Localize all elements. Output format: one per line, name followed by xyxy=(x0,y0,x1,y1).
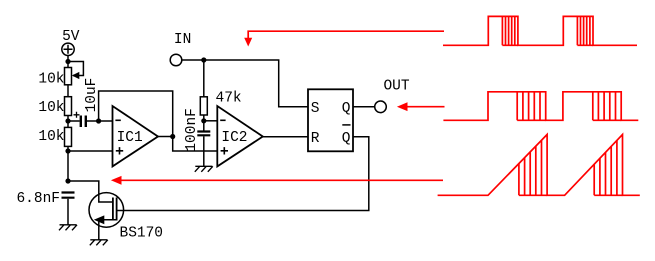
svg-text:100nF: 100nF xyxy=(184,108,200,152)
wire C3 to ground xyxy=(203,136,205,166)
wire IC2 output to R input xyxy=(263,136,308,138)
svg-text:BS170: BS170 xyxy=(120,225,164,241)
plus sign of C1 polarity xyxy=(74,112,80,118)
waveform 2 pulse train xyxy=(443,92,638,121)
wire IN node to R4 xyxy=(203,60,205,97)
IC1 minus sign xyxy=(115,119,120,121)
svg-text:6.8nF: 6.8nF xyxy=(16,191,60,207)
resistor R4 (47k) body xyxy=(200,97,207,115)
wire Q to OUT xyxy=(353,106,375,108)
svg-text:10k: 10k xyxy=(38,72,64,88)
IC2 plus sign xyxy=(221,147,228,154)
Q1 channel bar xyxy=(116,198,118,221)
potentiometer wiper arrowhead xyxy=(72,72,80,79)
capacitor C3 100nF plates xyxy=(197,132,210,136)
waveform 3 sawtooth xyxy=(438,135,640,196)
resistor R2 (10k) body xyxy=(65,97,72,116)
svg-text:IN: IN xyxy=(174,32,191,48)
Q1 body arrowhead xyxy=(94,215,105,224)
terminal IN xyxy=(170,54,182,66)
wire R4 to IC2 inverting input xyxy=(203,115,205,131)
potentiometer wiper loop wire xyxy=(68,62,83,76)
svg-text:R: R xyxy=(311,131,320,147)
junction inverting node IC1 xyxy=(96,118,101,123)
svg-text:IC2: IC2 xyxy=(221,130,247,146)
Q1 gate bar xyxy=(112,198,114,221)
svg-text:Q: Q xyxy=(342,131,351,147)
junction C2 top xyxy=(65,178,70,183)
wire IC1 output xyxy=(158,136,173,138)
terminal OUT xyxy=(375,101,387,113)
svg-text:10uF: 10uF xyxy=(84,78,100,113)
wire gate node xyxy=(68,181,112,202)
IC1 plus sign xyxy=(116,147,123,154)
svg-text:47k: 47k xyxy=(216,91,242,107)
wire IN to S input xyxy=(182,60,308,107)
red arrow to OUT terminal xyxy=(407,106,445,108)
wire node to IC2 minus xyxy=(204,120,218,122)
svg-text:5V: 5V xyxy=(62,29,80,45)
op-amp IC1 triangle xyxy=(113,106,159,166)
wire 5V to R1 xyxy=(67,56,69,68)
junction IC2 inverting node xyxy=(201,118,206,123)
wire Q1 drain to Q-bar xyxy=(124,137,369,211)
capacitor C1 10uF plates xyxy=(81,116,86,128)
5V supply symbol xyxy=(62,43,74,55)
Q1 source wire with body arrow xyxy=(99,220,117,240)
svg-text:IC1: IC1 xyxy=(117,130,143,146)
resistor R1 (10k pot) body xyxy=(65,68,72,85)
wire R1 to R2 xyxy=(67,85,69,97)
svg-text:Q: Q xyxy=(342,101,351,117)
wire C2 to ground xyxy=(67,199,69,225)
IC2 minus sign xyxy=(220,119,225,121)
junction IN / R4 xyxy=(201,57,206,62)
waveform 1 pulse train xyxy=(443,16,637,45)
svg-text:S: S xyxy=(311,101,320,117)
ground below Q1 source xyxy=(90,240,108,246)
wire divider bottom to IC1 plus input xyxy=(68,146,113,181)
wire tap to C1 xyxy=(68,120,80,122)
junction divider tap xyxy=(65,118,70,123)
ground below C3 xyxy=(195,166,213,172)
svg-text:10k: 10k xyxy=(38,129,64,145)
wire C1 to inverting node xyxy=(87,120,113,122)
capacitor C2 6.8nF plates xyxy=(62,193,75,198)
resistor R3 (10k) body xyxy=(65,127,72,146)
wire IC1 output down to IC2 plus input xyxy=(173,137,218,152)
transistor Q1 BS170 body circle xyxy=(89,193,124,228)
svg-text:10k: 10k xyxy=(38,100,64,116)
junction below 5V xyxy=(65,59,70,64)
feedback wire IC1 output to inverting input xyxy=(99,91,173,137)
Q1 drain stub xyxy=(117,210,124,212)
red arrow to IN wire xyxy=(248,31,444,38)
op-amp IC2 triangle xyxy=(217,106,262,166)
SR latch U1 box xyxy=(308,89,353,151)
junction IC1 output xyxy=(170,134,175,139)
red arrow to sawtooth node xyxy=(122,179,444,181)
wire R2 to R3 xyxy=(67,116,69,128)
ground below C2 xyxy=(59,225,77,231)
junction R3 bottom xyxy=(65,148,70,153)
svg-text:OUT: OUT xyxy=(383,79,409,95)
